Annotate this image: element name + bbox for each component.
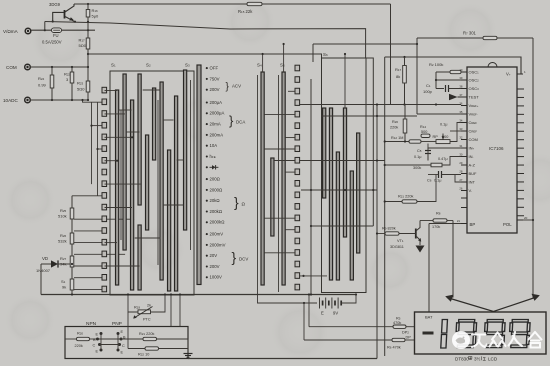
arrow lines to LCD: [445, 294, 540, 312]
svg-text:0.99: 0.99: [38, 83, 47, 88]
wire wafer1 link j: [164, 119, 174, 121]
wire wafer1 link l: [177, 159, 184, 161]
svg-text:32: 32: [459, 136, 463, 140]
switch bar S1a: [116, 90, 119, 285]
svg-text:VREF+: VREF+: [469, 103, 479, 108]
wire R17 to y54 bus: [87, 49, 89, 67]
wire S5 top: [283, 44, 285, 72]
junction 10A-R23: [87, 99, 89, 101]
svg-text:3DG811: 3DG811: [390, 245, 404, 249]
wire drop x390: [390, 4, 392, 105]
svg-text:10ADC: 10ADC: [3, 98, 18, 103]
svg-text:ACV: ACV: [232, 84, 241, 89]
wire wafer1 inner v1: [120, 110, 122, 240]
svg-text:E: E: [321, 311, 324, 316]
transistor VT1 3DG811: [390, 221, 421, 250]
junction y190 c: [372, 189, 374, 191]
wire y54 bus: [88, 54, 322, 58]
svg-text:R2 100k: R2 100k: [429, 62, 443, 67]
switch bar S2a2: [138, 225, 141, 290]
wire COM to shunt: [30, 66, 88, 68]
wire R22b left: [128, 348, 145, 350]
wire y57 to IC V+: [385, 57, 521, 74]
svg-text:IN+: IN+: [469, 146, 475, 151]
thermistor R19 PTC 2k: [133, 304, 152, 322]
svg-text:9V: 9V: [333, 311, 338, 316]
svg-text:470k: 470k: [393, 321, 401, 325]
junction y57 R8k: [403, 56, 405, 58]
wire y163 bus: [300, 160, 385, 162]
wire feeder xb link: [92, 125, 103, 127]
watermark wanzhongjiuhe: [452, 331, 542, 349]
junction y104 a: [376, 103, 378, 105]
IC extra left pin stubs: [461, 198, 467, 208]
resistor R20b 220k: [77, 337, 90, 340]
hFE socket frame: [65, 327, 188, 359]
svg-text:OSC3: OSC3: [469, 86, 480, 91]
wire chain to bus: [71, 290, 73, 295]
svg-text:R20: R20: [77, 332, 83, 336]
wire socket cross: [100, 344, 120, 346]
wire wafer1 link d: [105, 160, 118, 162]
svg-text:2000mV: 2000mV: [210, 242, 226, 247]
resistor R21b 220k: [402, 200, 417, 203]
svg-text:R8: R8: [436, 212, 441, 216]
wire DP to LCD: [405, 339, 415, 341]
svg-text:R6 470k: R6 470k: [387, 346, 401, 350]
IC pin1 V+ stub: [517, 70, 526, 74]
resistor R9 820k: [385, 232, 399, 235]
svg-text:S3: S3: [185, 63, 190, 68]
wire R16 top lead: [87, 4, 89, 10]
switch contact squares column B: [295, 65, 300, 290]
svg-text:36: 36: [459, 102, 463, 106]
junction y163 x377: [376, 159, 378, 161]
svg-text:1000V: 1000V: [210, 275, 223, 280]
wire y226 bus: [311, 225, 373, 227]
wire sq2 link a: [288, 90, 295, 92]
wire tap ext b: [102, 253, 125, 255]
svg-text:DP2: DP2: [402, 331, 409, 335]
IC right segment pins: [517, 89, 524, 216]
svg-text:R26: R26: [60, 233, 67, 238]
resistor R20 220k: [390, 119, 407, 133]
svg-text:OFF: OFF: [210, 66, 219, 71]
svg-text:532k: 532k: [58, 239, 67, 244]
wire wafer1 link f: [119, 109, 132, 111]
wire wafer2 rail left: [257, 75, 259, 292]
svg-text:3½: 3½: [474, 356, 481, 362]
wire wafer1 link m: [105, 207, 133, 209]
wire R23 leads: [87, 67, 89, 81]
junction PTC bus: [164, 293, 166, 295]
wire top bus y3.5 right: [262, 3, 391, 5]
wire base bus sloped: [45, 22, 366, 59]
svg-text:0.5A/250V: 0.5A/250V: [42, 39, 62, 44]
svg-text:C6: C6: [427, 179, 432, 183]
svg-text:V/ΩmA: V/ΩmA: [3, 29, 19, 34]
wire y116 bus: [321, 115, 417, 117]
wire y201 right: [417, 175, 436, 202]
wire wafer1 inner v2: [157, 100, 159, 265]
resistor R15 22k: [247, 2, 262, 5]
wire sq2 link i: [300, 275, 327, 277]
wire x128 socket drop: [127, 312, 129, 349]
wire IN+ row: [428, 148, 461, 161]
wire y165 row: [385, 164, 431, 166]
switch bar S4b: [271, 158, 274, 236]
svg-text:9k: 9k: [62, 285, 66, 290]
svg-text:3DG9: 3DG9: [49, 2, 61, 7]
resistor R26 532k: [58, 233, 74, 244]
junction y104 c: [435, 103, 437, 105]
ground VT1 emitter: [416, 246, 425, 253]
IC pin POL: [503, 216, 528, 227]
wire VD left drop: [40, 264, 42, 295]
junction wafer1 a: [116, 160, 118, 162]
junction feeder xc: [96, 148, 98, 150]
switch wafer S6 frame: [322, 58, 367, 293]
wire DP row: [304, 339, 392, 341]
junction bus x171: [170, 293, 172, 295]
svg-text:R9 820k: R9 820k: [382, 227, 396, 231]
capacitor C1 100p: [423, 83, 461, 94]
switch bar S6f: [357, 133, 360, 253]
svg-text:26: 26: [459, 187, 463, 191]
svg-text:S1: S1: [61, 279, 66, 284]
wire riser x311: [310, 79, 312, 295]
resistor R27 94k: [60, 256, 74, 267]
wire 300k to IN-: [442, 157, 461, 166]
svg-text:200mA: 200mA: [210, 132, 224, 137]
wire S4 top: [262, 54, 264, 72]
svg-text:300k: 300k: [413, 166, 421, 170]
wire sq2 link g: [285, 229, 295, 231]
svg-text:220k: 220k: [390, 126, 398, 130]
wire drop x313: [312, 44, 314, 62]
wire sq2 link j: [274, 160, 295, 162]
switch bar S1c: [131, 100, 134, 290]
wire chain tap 6: [74, 288, 102, 290]
wire R20 bottom lead: [404, 133, 406, 142]
fuse FU 0.5A/250V: [42, 28, 62, 45]
svg-text:DCA: DCA: [236, 120, 245, 125]
bracket OHM: [234, 194, 246, 210]
svg-text:2000Ω: 2000Ω: [210, 187, 224, 192]
wire PTC right: [151, 295, 166, 312]
junction base drop at bus: [52, 20, 54, 22]
battery E 9V: [320, 298, 342, 316]
svg-text:1N4007: 1N4007: [36, 268, 51, 273]
wire y44: [313, 43, 417, 45]
svg-text:V-: V-: [469, 188, 473, 193]
svg-text:28: 28: [459, 170, 463, 174]
svg-text:PTC: PTC: [143, 318, 151, 322]
svg-text:510k: 510k: [58, 214, 67, 219]
svg-text:R16: R16: [92, 8, 99, 13]
svg-text:BP: BP: [470, 222, 476, 227]
switch bar S6b: [329, 108, 332, 280]
svg-text:10A: 10A: [210, 143, 218, 148]
svg-text:500: 500: [442, 135, 448, 139]
junction feeder xb: [90, 125, 92, 127]
svg-text:200V: 200V: [210, 87, 220, 92]
switch bar S2a: [138, 74, 141, 205]
wire bottom bus y358.5: [188, 358, 377, 360]
svg-text:R21 220k: R21 220k: [398, 195, 413, 199]
resistor R2 100k: [450, 70, 461, 73]
svg-text:DP: DP: [406, 336, 412, 340]
resistor R22b 10: [145, 347, 159, 350]
resistor R28 9k: [61, 279, 74, 290]
wire wafer1 link n: [105, 242, 118, 244]
wire wafer1 link a: [105, 90, 118, 92]
wire R20 top lead: [404, 105, 406, 120]
wire riser x304: [303, 303, 305, 340]
bracket DCV: [232, 249, 249, 265]
svg-text:A-Z: A-Z: [469, 163, 476, 168]
svg-text:VREF-: VREF-: [469, 112, 478, 117]
svg-text:Ω: Ω: [242, 202, 246, 207]
svg-text:INT: INT: [469, 180, 476, 185]
svg-text:S5: S5: [280, 63, 285, 68]
svg-text:DT830: DT830: [455, 357, 469, 362]
wire fuse to node: [62, 29, 96, 31]
terminal 10ADC jack: [3, 97, 30, 103]
wire sq2 link b: [264, 113, 295, 115]
wire wafer1 link g: [127, 131, 140, 133]
svg-text:OSC2: OSC2: [469, 78, 480, 83]
resistor R21c 220k: [143, 337, 157, 340]
wire wafer2 rail mid: [278, 75, 280, 292]
svg-text:20mA: 20mA: [210, 122, 221, 127]
wire R24 top: [51, 67, 53, 75]
svg-text:R5: R5: [396, 317, 401, 321]
wire riser x533: [532, 38, 534, 298]
resistor R7 301: [483, 36, 497, 39]
LCD module box: [415, 312, 547, 354]
svg-text:21: 21: [457, 219, 461, 223]
wire y220 row: [420, 220, 433, 222]
switch bar S2c: [153, 88, 156, 160]
wire bottom bus y294.5: [41, 294, 356, 296]
svg-text:R24: R24: [38, 76, 45, 81]
socket PNP pins E B C E: [117, 330, 127, 355]
IC pin BP: [457, 219, 475, 227]
svg-text:20V: 20V: [210, 253, 218, 258]
junction bus x311: [310, 293, 312, 295]
wire feeder xc link: [98, 148, 103, 150]
svg-text:29: 29: [459, 161, 463, 165]
wire sq2 link d: [264, 148, 295, 150]
junction osc2: [435, 79, 437, 81]
wire x417 seg: [416, 38, 418, 114]
wire PNP B out: [121, 338, 143, 340]
resistor R23 shunt: [77, 81, 90, 93]
svg-text:20kΩ: 20kΩ: [210, 198, 221, 203]
svg-text:R17: R17: [395, 67, 402, 72]
junction y165 left: [384, 164, 386, 166]
svg-text:R15 22k: R15 22k: [238, 9, 253, 14]
resistor R5 470k: [393, 325, 406, 328]
svg-text:220k: 220k: [75, 344, 83, 348]
wire R12 to RP: [421, 141, 436, 143]
junction R9 riser: [376, 232, 378, 234]
wire sq2 link h: [264, 252, 295, 254]
junction x309 bus: [308, 293, 310, 295]
wire feeder xa: [83, 100, 103, 102]
switch bar S3a: [168, 150, 171, 291]
wire osc2: [436, 79, 461, 81]
junction S5 top: [283, 43, 285, 45]
wire wafer1 link i: [143, 89, 161, 91]
ground hFE common: [184, 339, 193, 357]
junction 10A-R24: [51, 99, 53, 101]
wire chain tap 5: [74, 277, 102, 279]
wire feeder xb: [91, 102, 93, 184]
switch bar S3b: [175, 96, 178, 291]
junction bus x180: [179, 293, 181, 295]
wire R22b right: [159, 348, 189, 350]
wire vref- y114: [417, 113, 461, 115]
bracket ACV: [226, 82, 242, 93]
wire battery feed: [258, 292, 318, 303]
wire 10ADC bus: [30, 99, 88, 101]
switch bar S5: [282, 72, 285, 285]
resistor R14 500: [421, 134, 430, 137]
wire y38 left: [417, 37, 483, 39]
terminal COM jack: [6, 64, 30, 70]
switch wiper bar S4col: [197, 65, 201, 285]
junction R20-R12: [404, 140, 406, 142]
wire wafer1 link o: [105, 265, 140, 267]
label DT830 type 3.5 digit LCD: [455, 356, 498, 362]
LCD minus sign: [423, 332, 434, 335]
wire R20b right: [90, 338, 98, 340]
svg-text:DCV: DCV: [239, 257, 248, 262]
junction y201 left: [384, 200, 386, 202]
svg-text:R22 10: R22 10: [138, 353, 149, 357]
wire chain tap 4: [74, 265, 102, 267]
junction x417-y44: [416, 43, 418, 45]
svg-text:200V: 200V: [210, 264, 220, 269]
svg-text:PNP: PNP: [112, 321, 122, 327]
junction y190 a: [310, 189, 312, 191]
svg-text:S6: S6: [323, 52, 328, 57]
wire R22 bottom: [71, 83, 73, 100]
bracket DCA: [229, 113, 245, 128]
resistor R8 170k: [433, 219, 447, 222]
wire riser x453: [452, 221, 454, 298]
junction feeder xa: [81, 99, 83, 101]
wire tap ext a: [102, 218, 133, 220]
svg-text:R19: R19: [134, 306, 140, 310]
wire battery right: [341, 295, 356, 304]
svg-text:100p: 100p: [423, 89, 433, 94]
wire osc3 left: [436, 88, 444, 90]
wire sq2 link f: [264, 217, 295, 219]
wire riser x429 to LCD: [428, 224, 430, 313]
capacitor C5 0.1u: [414, 144, 431, 161]
wire y190 bus: [301, 189, 377, 191]
wire R22 top: [71, 67, 73, 72]
svg-text:R21 220k: R21 220k: [139, 332, 154, 336]
diode VD 1N4007: [36, 256, 70, 273]
svg-text:2k: 2k: [147, 304, 151, 308]
wire chain top tap: [72, 195, 102, 197]
svg-text:170k: 170k: [432, 225, 440, 229]
wire drop x44.8: [44, 22, 46, 31]
transistor VT0 body: [53, 4, 75, 22]
svg-text:200Ω: 200Ω: [210, 177, 221, 182]
wire wafer1 link b: [105, 113, 126, 115]
wire wafer1 inner v3: [190, 80, 192, 250]
range labels column: [206, 66, 226, 280]
switch bar S6a: [323, 108, 326, 198]
switch bar S6c: [336, 152, 339, 280]
junction S4 top: [262, 53, 264, 55]
junction V line at R16 column: [87, 29, 89, 31]
resistor R16: [86, 8, 99, 19]
svg-text:hFE: hFE: [210, 154, 216, 159]
wire V jack to fuse: [31, 29, 52, 31]
LCD digits 999: [455, 320, 476, 348]
wire chain seg1: [71, 219, 73, 233]
svg-text:}: }: [229, 113, 234, 128]
switch wafer S1-S3 frame: [110, 71, 194, 295]
junction x348 top: [344, 53, 346, 55]
wire y201 row: [385, 201, 402, 203]
svg-text:R17: R17: [79, 38, 86, 43]
svg-text:RP: RP: [433, 135, 439, 139]
wire chain seg3: [71, 267, 73, 279]
junction diode-chain: [71, 263, 73, 265]
wire y38 right: [497, 37, 533, 39]
wire POL to riser: [523, 219, 533, 221]
svg-text:2000kΩ: 2000kΩ: [210, 220, 226, 225]
wire R21c right: [157, 338, 189, 340]
TEST pin arrow marker: [449, 94, 461, 100]
switch contact squares column A: [102, 87, 107, 292]
wire riser x384.7: [384, 57, 386, 356]
wire top bus y3.5 left: [74, 3, 247, 5]
wire S6 inner link: [326, 189, 338, 191]
wire wafer1 link c: [105, 136, 134, 138]
wire riser x377: [376, 105, 378, 359]
wire VT1 base: [399, 233, 416, 235]
junction y116 a: [376, 115, 378, 117]
svg-text:IN-: IN-: [469, 154, 474, 159]
svg-text:0.1μ: 0.1μ: [440, 123, 447, 127]
wire chain tap 0: [74, 218, 102, 220]
wire R8k top: [404, 57, 406, 66]
wire DP2 row: [309, 326, 393, 328]
junction y141 left: [384, 140, 386, 142]
svg-text:OSC1: OSC1: [469, 70, 480, 75]
svg-text:500: 500: [421, 130, 427, 134]
switch bar S3c: [184, 70, 187, 230]
switch bar S4: [261, 72, 264, 285]
junction battery tap: [303, 302, 305, 304]
wire BUF INT link: [455, 175, 461, 183]
wire chain seg2: [71, 244, 73, 256]
svg-text:V+: V+: [506, 72, 511, 77]
wire feeder xc: [97, 102, 99, 196]
svg-text:FU: FU: [53, 33, 59, 38]
svg-text:0.47μ: 0.47μ: [438, 157, 448, 161]
junction COM-R22: [71, 66, 73, 68]
svg-text:BUF: BUF: [469, 171, 478, 176]
